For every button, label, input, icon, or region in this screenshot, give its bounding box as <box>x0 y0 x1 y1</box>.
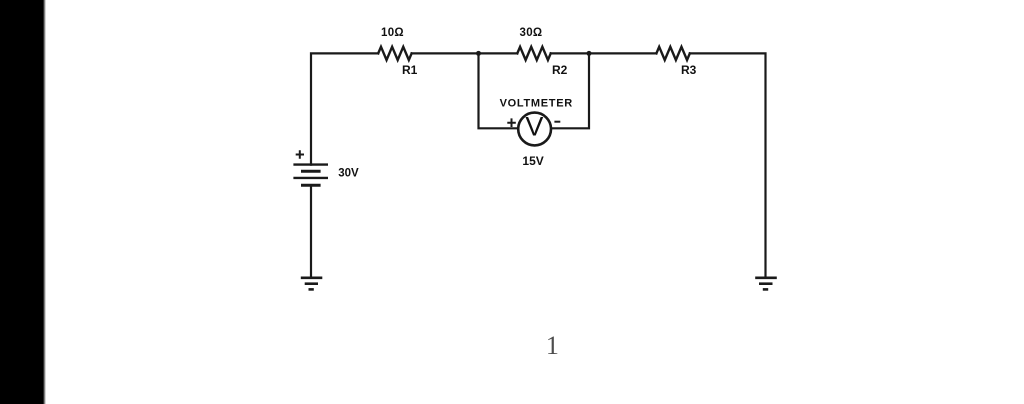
svg-text:R2: R2 <box>552 63 568 77</box>
svg-text:15V: 15V <box>522 154 543 168</box>
svg-text:10Ω: 10Ω <box>381 27 404 39</box>
svg-text:30V: 30V <box>338 167 359 179</box>
svg-text:30Ω: 30Ω <box>520 27 543 39</box>
svg-text:R3: R3 <box>681 63 697 77</box>
svg-text:VOLTMETER: VOLTMETER <box>500 98 573 110</box>
svg-text:R1: R1 <box>402 63 418 77</box>
svg-text:V: V <box>525 112 543 142</box>
svg-text:1: 1 <box>546 331 559 360</box>
